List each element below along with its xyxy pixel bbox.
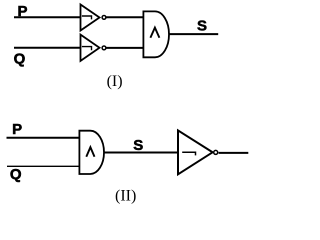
svg-text:P: P [18,3,28,20]
svg-text:Q: Q [10,166,22,183]
svg-text:Q: Q [14,50,26,67]
svg-text:S: S [197,18,207,35]
svg-text:P: P [12,121,22,138]
svg-text:S: S [133,137,143,154]
svg-text:(I): (I) [107,73,123,90]
svg-text:(II): (II) [115,188,136,205]
